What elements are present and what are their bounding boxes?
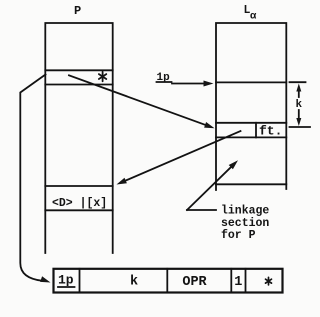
bar divider lp/k bbox=[79, 269, 81, 293]
divider L row at lp bbox=[216, 81, 286, 83]
svg-text:linkage: linkage bbox=[221, 205, 269, 218]
divider P row1 top bbox=[45, 69, 112, 71]
svg-text:k: k bbox=[130, 275, 138, 290]
svg-text:1p: 1p bbox=[58, 273, 74, 288]
svg-text:k: k bbox=[296, 99, 303, 111]
linkage label dash bbox=[187, 209, 216, 211]
wire arrow from ft cell to D cell bbox=[124, 131, 241, 181]
svg-text:1: 1 bbox=[234, 275, 242, 290]
label * in P cell bbox=[99, 72, 106, 82]
wire arrow from linkage label to linkage section cell bbox=[187, 166, 232, 210]
segment box P outline bbox=[45, 23, 112, 253]
divider ft row top bbox=[216, 122, 286, 124]
divider P row2 top bbox=[45, 185, 112, 187]
k dimension bottom tick bbox=[290, 126, 311, 128]
wire from * cell around left side to instruction word bbox=[20, 75, 45, 281]
arrowhead k up bbox=[296, 84, 301, 92]
arrowhead of lp arrow bbox=[204, 81, 214, 87]
divider P row2 bottom (D cell) bbox=[45, 209, 112, 211]
svg-text:OPR: OPR bbox=[182, 275, 207, 290]
arrowhead at D cell bbox=[117, 178, 127, 185]
arrowhead at ft word bbox=[204, 122, 214, 128]
ft sub-box divider bbox=[255, 123, 257, 138]
label * field bbox=[266, 277, 272, 285]
svg-text:P: P bbox=[74, 4, 81, 18]
svg-text:α: α bbox=[250, 11, 257, 23]
wire arrow from * cell to ft word bbox=[69, 75, 207, 125]
arrowhead at linkage section cell bbox=[229, 160, 238, 169]
k dimension up arrow shaft bbox=[298, 90, 300, 98]
segment box L-alpha outline bbox=[216, 23, 286, 190]
divider P row1 bottom (* cell) bbox=[45, 84, 112, 86]
divider ft row bottom bbox=[216, 136, 286, 138]
k dimension top tick bbox=[290, 81, 306, 83]
bar divider k/OPR bbox=[166, 269, 168, 293]
bar lp underline bbox=[58, 286, 75, 288]
instruction word bar outline bbox=[54, 269, 283, 293]
arrowhead k down bbox=[296, 118, 301, 126]
lp label underline bbox=[157, 81, 172, 83]
svg-text:<D> |[x]: <D> |[x] bbox=[52, 197, 107, 210]
k dimension down arrow shaft bbox=[298, 110, 300, 120]
lp arrow shaft bbox=[172, 83, 206, 85]
svg-text:ft.: ft. bbox=[259, 124, 282, 139]
arrowhead at instruction word bbox=[40, 276, 50, 282]
svg-text:section: section bbox=[221, 217, 269, 230]
svg-text:1p: 1p bbox=[157, 72, 171, 84]
bar divider 1/* bbox=[245, 269, 247, 293]
divider L bottom row bbox=[216, 183, 286, 185]
svg-text:for P: for P bbox=[221, 229, 256, 242]
bar divider OPR/1 bbox=[230, 269, 232, 293]
